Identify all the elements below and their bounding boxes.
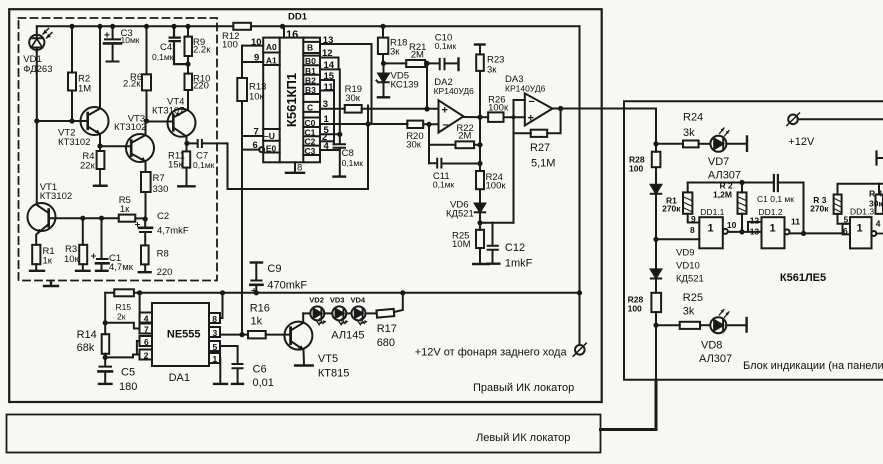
svg-text:3к: 3к xyxy=(487,65,497,76)
svg-text:E0: E0 xyxy=(266,144,277,154)
svg-text:220: 220 xyxy=(157,267,173,278)
svg-text:3k: 3k xyxy=(683,127,695,139)
resistor R12 xyxy=(217,23,580,30)
+12V feed column and connector to reverse light xyxy=(573,26,586,356)
capacitor C9 xyxy=(250,263,262,293)
capacitor C7 xyxy=(187,140,217,147)
resistor R10 xyxy=(185,64,193,109)
svg-text:270к: 270к xyxy=(662,204,681,214)
pin 6 stub with inversion bubble xyxy=(242,147,264,152)
svg-text:8: 8 xyxy=(690,225,695,235)
svg-text:R7: R7 xyxy=(153,173,165,184)
IC DD1 К561КП1 multiplexer body xyxy=(263,38,320,163)
svg-text:12: 12 xyxy=(750,216,760,226)
wire VT3 collector node to VT4 base xyxy=(147,121,174,123)
resistor R4 (30к) partially cut at edge xyxy=(876,184,883,214)
capacitor C8 xyxy=(334,134,346,176)
NOR gate DD1.2 xyxy=(762,217,790,248)
svg-text:16: 16 xyxy=(286,29,298,41)
svg-text:0,1мк: 0,1мк xyxy=(433,179,455,189)
svg-text:30к: 30к xyxy=(406,140,422,151)
pin 9 stub xyxy=(242,61,263,63)
svg-text:3: 3 xyxy=(323,99,328,110)
indication block box xyxy=(624,101,883,380)
svg-text:C5: C5 xyxy=(121,367,135,379)
resistor R21 xyxy=(384,60,430,67)
svg-text:VD9: VD9 xyxy=(676,248,694,259)
resistor R16 xyxy=(220,331,291,338)
svg-text:A0: A0 xyxy=(266,42,277,52)
wire NE555 pin 4 to +12V xyxy=(139,293,141,318)
svg-text:10мк: 10мк xyxy=(121,35,140,45)
resistor R23 xyxy=(475,45,485,145)
wire VT2 base node xyxy=(37,118,87,123)
pin cells right of DA1 xyxy=(209,313,220,363)
svg-text:1: 1 xyxy=(857,223,863,235)
resistor R24 (100к) xyxy=(476,145,484,189)
svg-text:B0: B0 xyxy=(305,56,316,66)
svg-text:3k: 3k xyxy=(683,306,695,318)
svg-text:9: 9 xyxy=(254,53,259,64)
svg-text:11: 11 xyxy=(324,82,335,93)
DA3 output wire xyxy=(553,106,657,111)
svg-text:R14: R14 xyxy=(77,329,97,341)
svg-text:10M: 10M xyxy=(452,239,471,250)
svg-text:R25: R25 xyxy=(683,292,703,304)
pin 14 wire xyxy=(320,69,340,134)
svg-text:2M: 2M xyxy=(411,49,424,60)
svg-text:ФД263: ФД263 xyxy=(23,64,52,75)
enclosure box (left IR locator) xyxy=(7,415,601,453)
svg-text:R8: R8 xyxy=(157,249,169,260)
svg-text:1к: 1к xyxy=(120,204,130,215)
resistor R3 xyxy=(76,218,90,271)
svg-text:VD10: VD10 xyxy=(676,261,700,272)
svg-text:4,7мк: 4,7мк xyxy=(109,262,134,273)
transistor VT3 xyxy=(100,122,154,173)
svg-text:VT5: VT5 xyxy=(318,353,338,365)
resistor R13 on A0 column xyxy=(237,46,247,336)
svg-text:1: 1 xyxy=(213,354,218,364)
svg-text:B: B xyxy=(307,43,313,53)
svg-text:1,2M: 1,2M xyxy=(713,190,732,200)
svg-text:+12V от фонаря заднего хода: +12V от фонаря заднего хода xyxy=(415,347,568,359)
svg-text:1к: 1к xyxy=(43,256,53,267)
resistor R5 xyxy=(119,215,148,222)
svg-text:VD4: VD4 xyxy=(351,296,366,305)
resistor R25 (10M) xyxy=(473,223,488,264)
svg-text:100: 100 xyxy=(629,164,643,174)
svg-text:7: 7 xyxy=(144,325,149,335)
resistor R17 xyxy=(366,293,403,318)
photodiode VD1 xyxy=(29,26,52,52)
svg-text:8: 8 xyxy=(212,314,217,324)
svg-text:R 4: R 4 xyxy=(869,189,883,199)
svg-text:АЛ307: АЛ307 xyxy=(699,353,732,365)
resistor R7 xyxy=(141,172,151,219)
svg-text:0,01: 0,01 xyxy=(253,377,274,389)
svg-text:6: 6 xyxy=(144,337,149,347)
capacitor C3 xyxy=(104,24,121,62)
svg-text:270к: 270к xyxy=(810,204,829,214)
rail of multivibrator (R1/R2 tops) xyxy=(688,180,774,185)
svg-text:КС139: КС139 xyxy=(391,80,419,91)
svg-text:7: 7 xyxy=(254,127,259,138)
svg-text:+12V: +12V xyxy=(788,136,815,148)
wire DD1.2 output to DD1.3 inputs xyxy=(790,224,851,235)
resistor R14 xyxy=(102,293,110,367)
pin 16 xyxy=(283,26,285,37)
wire DD1.1 pin 8 from VD9/VD10 node xyxy=(656,238,699,240)
svg-text:12: 12 xyxy=(322,48,333,59)
svg-text:C6: C6 xyxy=(253,364,267,376)
pin 5 stub (C1) xyxy=(320,132,342,137)
op-amp DA2 xyxy=(439,100,464,132)
pin cells left of DA1 xyxy=(140,313,153,360)
wire from R21/C10 node down to DA2 + input xyxy=(424,63,429,111)
svg-text:+: + xyxy=(528,113,534,125)
svg-text:22к: 22к xyxy=(80,161,96,172)
diode VD6 xyxy=(475,189,485,225)
wire NE555 pins 6 and 2 to R14/C5 node xyxy=(105,341,139,357)
svg-text:–: – xyxy=(529,96,535,108)
svg-text:100к: 100к xyxy=(486,181,507,192)
svg-text:–U: –U xyxy=(264,131,275,141)
svg-text:0,1мк: 0,1мк xyxy=(193,160,215,170)
svg-text:13: 13 xyxy=(323,35,334,46)
transistor VT2 xyxy=(81,24,109,149)
svg-text:1k: 1k xyxy=(251,316,263,328)
op-amp DA3 xyxy=(525,93,553,125)
svg-text:1: 1 xyxy=(708,223,714,235)
svg-text:10к: 10к xyxy=(249,92,265,103)
svg-text:R24: R24 xyxy=(683,112,703,124)
svg-text:0,1мк: 0,1мк xyxy=(435,41,457,51)
capacitor C11 xyxy=(429,159,483,168)
svg-text:C: C xyxy=(307,103,313,113)
svg-text:VD7: VD7 xyxy=(708,156,729,168)
pin 11 wire xyxy=(320,80,334,144)
svg-text:DD1.2: DD1.2 xyxy=(759,207,783,217)
svg-text:4: 4 xyxy=(144,314,149,324)
main enclosure box (right IR locator) xyxy=(9,9,602,402)
svg-text:–: – xyxy=(443,119,449,131)
svg-text:470mkF: 470mkF xyxy=(267,280,307,292)
svg-text:330: 330 xyxy=(153,184,169,195)
svg-text:3к: 3к xyxy=(390,47,400,58)
svg-text:DD1.1: DD1.1 xyxy=(700,207,724,217)
svg-text:5: 5 xyxy=(213,342,218,352)
svg-text:КД521: КД521 xyxy=(676,274,704,285)
pin 4 stub (C3) xyxy=(320,149,340,151)
capacitor C1 (0,1 мк) xyxy=(774,175,806,236)
capacitor C2 xyxy=(136,219,153,245)
svg-text:B1: B1 xyxy=(305,66,316,76)
pin 13 wire (B) xyxy=(320,44,372,124)
svg-text:5,1M: 5,1M xyxy=(531,158,555,170)
IR LED VD3 xyxy=(324,306,348,324)
resistor R9 xyxy=(185,24,193,64)
svg-text:VD3: VD3 xyxy=(330,296,345,305)
capacitor plate at right edge xyxy=(877,152,883,165)
svg-text:8: 8 xyxy=(297,163,302,174)
pin 8 of DD1 xyxy=(286,162,304,173)
pin 15 stub xyxy=(320,80,334,91)
pin 12 stub xyxy=(320,58,339,70)
ground pin on dashed box bottom xyxy=(44,281,58,286)
IR LED VD4 xyxy=(346,306,367,324)
+12V top rail (left part, inside preamp) xyxy=(37,25,217,27)
resistor R6 xyxy=(142,24,151,124)
svg-text:Блок индикации (на панели: Блок индикации (на панели xyxy=(743,360,883,372)
+12V connector top right xyxy=(787,113,883,126)
svg-text:B2: B2 xyxy=(305,75,316,85)
wire DD1.1 output to DD1.2 inputs xyxy=(728,222,762,235)
pin 7 stub xyxy=(242,135,263,137)
op-amp DA2 output / resistor R26 xyxy=(464,112,525,122)
resistor R2 xyxy=(68,24,76,121)
svg-text:+: + xyxy=(442,105,448,117)
resistor R1 xyxy=(30,245,44,271)
svg-text:DD1: DD1 xyxy=(288,12,308,23)
feedback node column of DA2 xyxy=(428,124,430,163)
svg-text:3: 3 xyxy=(213,328,218,338)
pin 10 stub xyxy=(242,45,263,47)
svg-text:КТ3107: КТ3107 xyxy=(152,106,184,117)
LED VD8 xyxy=(710,309,746,333)
resistor R2 (1,2M) xyxy=(738,183,747,232)
zener diode VD5 xyxy=(377,63,390,97)
capacitor C10 xyxy=(427,59,459,71)
svg-text:АЛ307: АЛ307 xyxy=(708,169,741,181)
resistor R18 xyxy=(378,26,388,66)
svg-text:100: 100 xyxy=(628,304,642,314)
wire VD1 column down to VT1 collector xyxy=(34,52,48,213)
svg-text:КТ3102: КТ3102 xyxy=(114,122,146,133)
svg-text:220: 220 xyxy=(193,81,209,92)
resistor R25 (3k) xyxy=(656,322,710,329)
svg-text:Правый ИК локатор: Правый ИК локатор xyxy=(473,382,574,394)
svg-text:Левый ИК локатор: Левый ИК локатор xyxy=(476,432,570,444)
svg-text:R16: R16 xyxy=(250,303,270,315)
svg-text:4,7mkF: 4,7mkF xyxy=(157,226,189,237)
svg-text:10: 10 xyxy=(251,37,262,48)
svg-text:2M: 2M xyxy=(458,130,471,141)
svg-text:4: 4 xyxy=(324,141,330,152)
resistor R8 xyxy=(139,245,151,272)
svg-text:2.2к: 2.2к xyxy=(193,45,211,56)
svg-text:КД521: КД521 xyxy=(446,208,474,219)
transistor VT4 xyxy=(168,109,196,146)
svg-text:180: 180 xyxy=(119,381,137,393)
svg-text:30к: 30к xyxy=(345,93,361,104)
svg-text:VD2: VD2 xyxy=(309,296,324,305)
resistor R27 feedback xyxy=(514,109,561,137)
resistor R22 xyxy=(429,141,483,148)
diode VD9 xyxy=(651,185,661,194)
svg-text:6: 6 xyxy=(843,226,848,236)
timer DA1 NE555 body xyxy=(152,303,209,366)
svg-text:C3: C3 xyxy=(305,146,316,156)
svg-text:4: 4 xyxy=(876,219,881,229)
svg-text:2: 2 xyxy=(144,351,149,361)
svg-text:К561КП1: К561КП1 xyxy=(284,73,299,127)
svg-text:9: 9 xyxy=(691,214,696,224)
wire from DA3 output down indication chain xyxy=(653,109,658,381)
svg-text:К561ЛЕ5: К561ЛЕ5 xyxy=(780,272,826,284)
LED VD7 xyxy=(710,128,747,152)
svg-text:68k: 68k xyxy=(77,342,95,354)
svg-text:КР140УД6: КР140УД6 xyxy=(434,86,475,96)
pin 3 stub and resistor R19 xyxy=(320,105,438,113)
svg-text:1: 1 xyxy=(770,223,776,235)
resistor R15 xyxy=(114,289,134,296)
svg-text:680: 680 xyxy=(377,337,395,349)
resistor R24 (3k) xyxy=(656,141,710,148)
transistor VT1 xyxy=(28,203,119,245)
transistor VT5 xyxy=(284,313,312,365)
svg-text:10к: 10к xyxy=(64,254,80,265)
svg-text:A1: A1 xyxy=(266,56,277,66)
resistor R11 xyxy=(178,143,194,186)
svg-text:R17: R17 xyxy=(377,323,397,335)
svg-text:11: 11 xyxy=(791,217,800,227)
capacitor C12 xyxy=(487,223,499,264)
svg-text:C1 0,1 мк: C1 0,1 мк xyxy=(757,194,794,204)
svg-text:10: 10 xyxy=(727,220,737,230)
IR LED VD2 xyxy=(303,306,326,324)
svg-text:6: 6 xyxy=(253,140,258,151)
svg-text:КР140УД6: КР140УД6 xyxy=(505,83,546,93)
svg-text:2.2к: 2.2к xyxy=(123,79,141,90)
svg-text:14: 14 xyxy=(324,60,335,71)
svg-text:1M: 1M xyxy=(78,84,91,95)
svg-text:1mkF: 1mkF xyxy=(505,258,533,270)
svg-text:R15: R15 xyxy=(116,302,132,312)
svg-text:C2: C2 xyxy=(157,211,169,222)
DA3 inverting input column xyxy=(514,100,525,223)
svg-text:30к: 30к xyxy=(869,199,883,209)
NOR gate DD1.1 xyxy=(699,217,728,248)
svg-text:100: 100 xyxy=(222,40,238,51)
wire NE555 pin 1 to common xyxy=(214,358,227,384)
svg-text:C9: C9 xyxy=(267,263,281,275)
svg-text:5: 5 xyxy=(844,215,849,225)
resistor R28 (lower) xyxy=(651,293,661,312)
wire NE555 pin 7 to R14/R15 node xyxy=(105,323,139,329)
resistor R4 xyxy=(94,146,107,186)
svg-text:VD8: VD8 xyxy=(701,340,722,352)
svg-text:КТ3102: КТ3102 xyxy=(40,191,72,202)
svg-text:13: 13 xyxy=(750,226,760,236)
NOR gate DD1.3 xyxy=(850,217,883,248)
resistor R28 (upper) xyxy=(652,152,661,168)
svg-text:КТ3102: КТ3102 xyxy=(58,137,90,148)
pin 1 wire (C0) xyxy=(320,121,372,126)
dashed preamp box xyxy=(19,18,218,281)
svg-text:АЛ145: АЛ145 xyxy=(331,330,364,342)
svg-text:2к: 2к xyxy=(117,312,126,322)
+12V rail to NE555 xyxy=(105,290,582,295)
resistor R1 (270к) xyxy=(683,183,699,223)
svg-text:0,1мк: 0,1мк xyxy=(342,158,364,168)
svg-text:1: 1 xyxy=(324,114,330,125)
svg-text:C12: C12 xyxy=(505,242,525,254)
svg-text:15к: 15к xyxy=(168,160,184,171)
svg-text:КТ815: КТ815 xyxy=(318,368,349,380)
resistor R20 xyxy=(372,121,439,128)
signal wire from C7 under DD1 to pin 1 xyxy=(217,106,368,190)
wire: thick link from indication block down to left locator box xyxy=(601,380,657,429)
resistor R3 (270к) xyxy=(834,184,883,224)
capacitor C6 on pin 5 xyxy=(220,346,243,384)
diode VD10 xyxy=(651,269,661,278)
capacitor C4 xyxy=(170,24,191,67)
capacitor C5 xyxy=(99,367,113,384)
svg-text:100к: 100к xyxy=(488,102,509,113)
svg-text:R27: R27 xyxy=(530,142,550,154)
svg-text:B3: B3 xyxy=(305,85,316,95)
svg-text:DA1: DA1 xyxy=(169,372,190,384)
node wire to DA3 minus column xyxy=(480,222,514,224)
wire NE555 pin 8 to +12V xyxy=(220,293,223,318)
capacitor C1 xyxy=(92,218,109,271)
svg-text:0,1мк: 0,1мк xyxy=(152,52,174,62)
svg-text:NE555: NE555 xyxy=(167,329,201,341)
pin 2 stub (C2) xyxy=(320,140,334,142)
